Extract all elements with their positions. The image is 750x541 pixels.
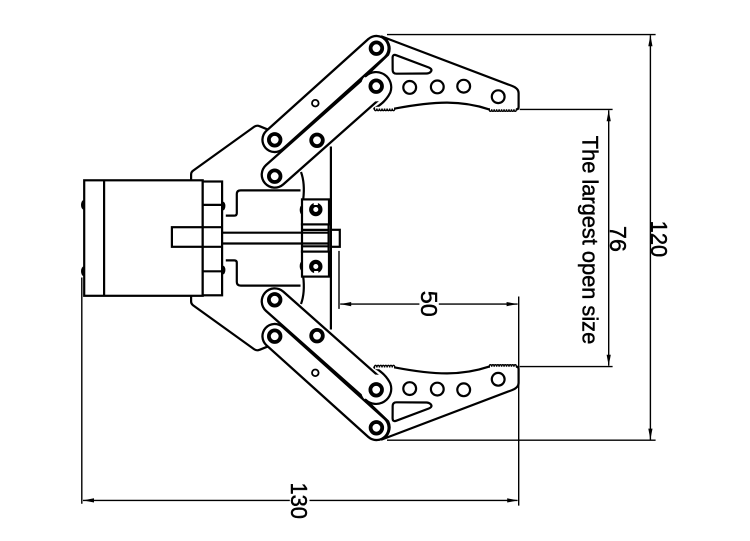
jaw hole 4 xyxy=(492,90,505,103)
flange division lines xyxy=(203,204,222,206)
motor end cap line xyxy=(103,180,105,295)
bracket outline bottom xyxy=(226,260,301,285)
jaw serration left xyxy=(374,109,394,111)
pivot ring C xyxy=(269,134,281,146)
base plate top edge xyxy=(191,126,268,180)
pivot ring E xyxy=(269,170,281,182)
jaw hole 3 xyxy=(457,80,470,93)
link2 cap eraser under jaw lobe xyxy=(361,71,391,101)
bearing block top screw tip xyxy=(300,205,304,214)
arrow 50 left xyxy=(340,302,351,306)
flange right screw bottom xyxy=(221,266,226,275)
base plate (gripper palm bracket) fill xyxy=(191,126,298,351)
pivot ring D xyxy=(311,135,323,147)
arrow 120 down xyxy=(648,429,652,440)
svg-text:50: 50 xyxy=(416,291,442,317)
nut block xyxy=(302,224,329,251)
lead screw shaft xyxy=(222,232,329,234)
ext line 76 top xyxy=(520,108,613,110)
jaw finger xyxy=(366,37,519,110)
link 1 rear xyxy=(275,48,377,140)
ext line top (120) xyxy=(387,34,656,36)
palm left edge top xyxy=(301,172,304,200)
ext line 76 bottom xyxy=(520,366,613,368)
flange right screw top xyxy=(221,202,226,211)
svg-text:The largest open size: The largest open size xyxy=(577,136,602,344)
dim line 130 part2 xyxy=(310,499,518,501)
arrow 76 up xyxy=(607,110,611,121)
bearing block top xyxy=(302,199,329,224)
dim line 76 xyxy=(608,110,610,365)
ext line 50 left xyxy=(338,251,340,309)
bottom arm assembly (mirror) xyxy=(269,294,519,440)
arrow 76 down xyxy=(607,355,611,366)
base plate bottom edge xyxy=(191,296,268,350)
palm plate fill xyxy=(303,146,331,331)
set screw symbol top xyxy=(311,202,320,214)
palm right edge xyxy=(330,147,332,330)
set screw symbol bottom xyxy=(311,262,320,274)
arrow 50 right xyxy=(507,302,518,306)
nut internal lines xyxy=(302,229,329,231)
ext line right common xyxy=(518,297,520,506)
arrow 130 left xyxy=(83,498,94,502)
dim line 50 part2 xyxy=(439,303,518,305)
pivot ring A xyxy=(371,42,383,54)
motor left screw bottom xyxy=(81,266,87,276)
svg-text:76: 76 xyxy=(605,226,631,252)
ext line 130 left xyxy=(81,278,83,504)
serration baseline erasers xyxy=(490,108,516,112)
dim line 130 part1 xyxy=(83,499,290,501)
link 1 small hole xyxy=(312,100,319,107)
motor left screw top xyxy=(81,200,87,210)
jaw left edge visible in gap xyxy=(366,55,389,77)
jaw triangular cutout xyxy=(393,55,432,74)
dim line 50 part1 xyxy=(340,303,419,305)
link 2 front xyxy=(275,85,377,175)
top arm assembly xyxy=(269,37,519,183)
svg-text:130: 130 xyxy=(286,482,312,519)
palm left edge bottom xyxy=(301,276,304,304)
shaft end boss xyxy=(331,230,340,247)
motor flange xyxy=(203,182,222,296)
motor coupler boss xyxy=(172,227,203,247)
bracket outline top xyxy=(226,190,301,215)
ext line bottom (120) xyxy=(387,439,656,441)
dimension layer xyxy=(82,35,656,506)
svg-text:120: 120 xyxy=(646,221,672,258)
dim line 120 xyxy=(649,35,651,439)
arrow 130 right xyxy=(507,498,518,502)
bearing block bottom screw tip xyxy=(300,262,304,271)
jaw hole 1 xyxy=(403,81,416,94)
arrow 120 up xyxy=(648,35,652,46)
jaw serration right xyxy=(489,109,516,111)
bearing block bottom xyxy=(302,252,329,277)
pivot ring B xyxy=(370,80,382,92)
jaw hole 2 xyxy=(431,81,444,94)
motor body xyxy=(84,180,203,295)
